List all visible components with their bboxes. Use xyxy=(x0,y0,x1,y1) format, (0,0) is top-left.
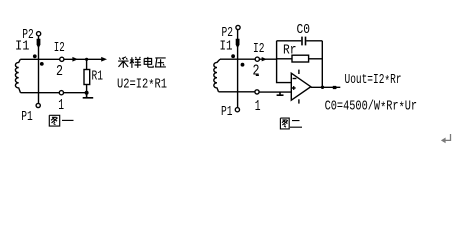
svg-text:R1: R1 xyxy=(92,68,104,84)
svg-text:2: 2 xyxy=(56,63,63,80)
capacitor C0 left wire xyxy=(277,40,302,42)
arrow output xyxy=(333,86,337,89)
polarity dot primary xyxy=(33,54,37,58)
terminal 2 xyxy=(60,57,64,61)
capacitor C0 plates xyxy=(302,37,306,46)
op-amp plus sign xyxy=(292,86,296,90)
node R1 bottom junction xyxy=(85,91,89,95)
char 采 xyxy=(118,57,128,68)
primary current arrow (down) xyxy=(37,39,41,49)
wire plus input lead xyxy=(259,91,291,93)
wire top rail right (fig2) xyxy=(259,58,276,60)
wire bottom rail left xyxy=(21,92,60,94)
wire op-amp output xyxy=(311,86,341,88)
wire bottom rail right xyxy=(64,92,87,94)
CJK caption 图二 (hand-drawn) xyxy=(280,118,302,129)
wire top rail left xyxy=(20,58,59,60)
primary current arrow down (fig2) xyxy=(236,39,240,49)
wire bottom rail (fig2) xyxy=(219,91,255,93)
resistor Rr xyxy=(292,55,309,62)
secondary winding L1 xyxy=(15,59,20,92)
underline below label 2 (fig2) xyxy=(256,74,259,76)
wire feedback left vertical xyxy=(277,41,292,83)
wire top rail left (fig2) xyxy=(220,58,255,60)
terminal P2 (fig2) xyxy=(236,25,240,29)
current direction arrow I2 xyxy=(72,57,78,62)
svg-text:P1: P1 xyxy=(21,109,33,125)
char 样 xyxy=(130,57,141,68)
svg-text:I2: I2 xyxy=(54,40,65,56)
svg-text:1: 1 xyxy=(58,97,64,114)
wire Rr branch left xyxy=(277,58,292,60)
ground on plus input xyxy=(277,92,284,95)
wire primary P2 down (fig2) xyxy=(237,30,239,108)
terminal P1 xyxy=(36,103,40,107)
char 一 xyxy=(62,119,74,121)
secondary winding L2 xyxy=(214,59,220,92)
svg-text:C0=4500/W*Rr*Ur: C0=4500/W*Rr*Ur xyxy=(325,99,418,117)
op-amp power stub bottom xyxy=(298,99,300,103)
ground xyxy=(83,93,94,98)
svg-text:P1: P1 xyxy=(221,104,233,120)
svg-text:C0: C0 xyxy=(297,22,311,38)
svg-text:Rr: Rr xyxy=(283,42,297,58)
terminal P1 (fig2) xyxy=(235,108,239,112)
svg-text:Uout=I2*Rr: Uout=I2*Rr xyxy=(345,72,402,90)
char 电 xyxy=(144,57,153,67)
wire Rr branch right xyxy=(309,58,323,60)
polarity dot primary (fig2) xyxy=(231,54,235,58)
char 二 xyxy=(290,121,302,128)
terminal 1 xyxy=(59,91,63,95)
arrow to sampling voltage xyxy=(101,57,107,62)
op-amp U1 xyxy=(291,73,311,100)
op-amp power stub top xyxy=(298,70,300,74)
char 压 xyxy=(155,58,166,68)
char 图 xyxy=(49,115,59,126)
op-amp minus sign xyxy=(293,78,297,80)
wire R1 bottom lead xyxy=(86,85,88,93)
CJK text 采样电压 (hand-drawn) xyxy=(118,57,166,68)
wire feedback right vertical xyxy=(321,41,323,88)
polarity dot secondary (fig2) xyxy=(241,63,245,67)
svg-text:2: 2 xyxy=(253,62,260,79)
wire R1 top lead xyxy=(86,59,88,69)
CJK caption 图一 (hand-drawn) xyxy=(49,115,73,126)
polarity dot secondary xyxy=(40,62,44,66)
current arrow I2 (fig2) xyxy=(262,57,267,61)
svg-text:I1: I1 xyxy=(220,39,233,55)
terminal 2 (fig2) xyxy=(255,57,259,61)
svg-text:1: 1 xyxy=(255,98,261,115)
svg-text:U2=I2*R1: U2=I2*R1 xyxy=(117,76,167,94)
wire top rail right xyxy=(64,58,102,60)
node R1 top junction xyxy=(85,58,88,61)
node output junction xyxy=(321,86,324,89)
terminal 1 (fig2) xyxy=(255,90,259,94)
resistor R1 xyxy=(84,70,90,85)
char 图 (fig2) xyxy=(280,118,289,129)
svg-text:I2: I2 xyxy=(253,41,265,57)
svg-text:I1: I1 xyxy=(15,39,30,55)
capacitor C0 right wire xyxy=(306,40,322,42)
terminal P2 xyxy=(37,32,41,36)
paragraph return mark xyxy=(441,134,451,143)
wire primary P2 down xyxy=(38,36,40,104)
